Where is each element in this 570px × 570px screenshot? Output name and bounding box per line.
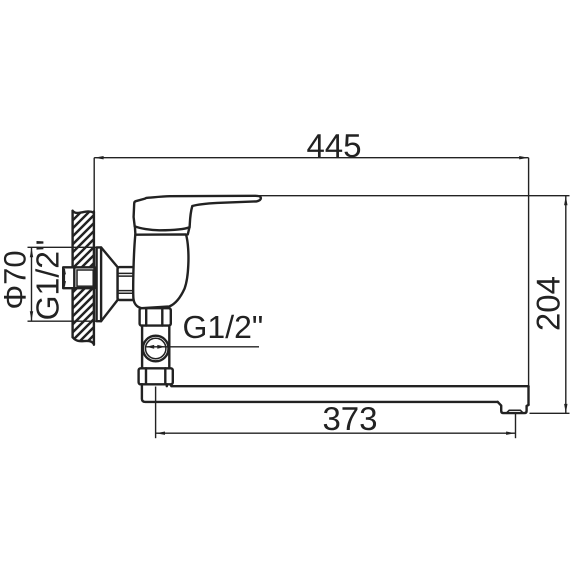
diverter leader line to G1/2 label xyxy=(147,346,260,348)
hex flat line lower xyxy=(118,290,135,292)
dim 204 bottom extension xyxy=(530,412,570,414)
diverter knob circle xyxy=(143,336,169,362)
spout right stub edge xyxy=(166,384,168,386)
hex flat right xyxy=(161,308,163,325)
flange base inner line xyxy=(100,247,102,321)
wall bottom cap xyxy=(73,337,94,344)
diverter arrow left xyxy=(146,345,154,349)
dim 204 top extension from lever tip xyxy=(256,195,570,197)
aerator xyxy=(506,410,523,413)
dim 445 text xyxy=(307,134,360,157)
stub inner thread square xyxy=(77,270,93,286)
dim 373 left extension xyxy=(155,387,157,439)
dim 204 line xyxy=(565,196,567,413)
dim 373 right arrow xyxy=(506,432,515,435)
diverter arrow right xyxy=(157,345,165,349)
collar right join xyxy=(188,228,190,235)
spout end edge xyxy=(527,386,529,405)
spout tube xyxy=(142,384,498,402)
wall right edge xyxy=(93,212,95,345)
big G1/2 label xyxy=(184,315,262,339)
dim phi70 bottom arrow xyxy=(30,311,33,320)
dim phi70 top arrow xyxy=(30,248,33,257)
wall hatch xyxy=(60,175,110,409)
dim 445 left extension xyxy=(93,158,95,213)
hex flat line upper xyxy=(118,272,135,274)
dim 373 line xyxy=(156,432,516,434)
lower hex flat left xyxy=(145,368,147,384)
dim 445 right extension xyxy=(528,158,530,386)
hex flat left xyxy=(145,308,147,325)
dim 373 right extension xyxy=(515,413,517,438)
dim 445 line xyxy=(94,157,528,159)
dim 204 top arrow xyxy=(564,196,567,205)
flange escutcheon xyxy=(97,247,118,321)
dim 373 text xyxy=(324,407,376,430)
dim phi70 text xyxy=(4,252,26,308)
handle lever xyxy=(134,196,261,231)
riser pipe left xyxy=(141,326,143,369)
dim phi70 bottom extension xyxy=(28,320,102,322)
faucet body xyxy=(133,234,188,308)
dim 204 text xyxy=(537,277,560,329)
stub end cap line xyxy=(73,267,75,288)
outlet hex nut xyxy=(140,308,171,325)
diverter inner circle xyxy=(146,338,166,358)
wall inlet stub G1/2 xyxy=(63,267,94,288)
lower hex nut xyxy=(139,368,173,384)
spout top edge xyxy=(171,385,529,387)
riser pipe right xyxy=(168,326,170,369)
dim phi70 line xyxy=(31,248,33,321)
dim 204 bottom arrow xyxy=(564,404,567,413)
dim 445 left arrow xyxy=(94,156,103,159)
dim 445 right arrow xyxy=(519,156,528,159)
left G1/2 text xyxy=(35,241,59,319)
wall top cap xyxy=(73,211,94,213)
stub dimension arrows xyxy=(63,269,65,287)
lower hex flat right xyxy=(164,368,166,384)
wall left edge xyxy=(71,211,73,337)
spout nozzle xyxy=(498,402,529,413)
collar left join xyxy=(134,226,137,234)
dim phi70 top extension xyxy=(28,246,102,248)
dim 373 left arrow xyxy=(156,432,165,435)
hex nut at wall side xyxy=(118,267,135,300)
